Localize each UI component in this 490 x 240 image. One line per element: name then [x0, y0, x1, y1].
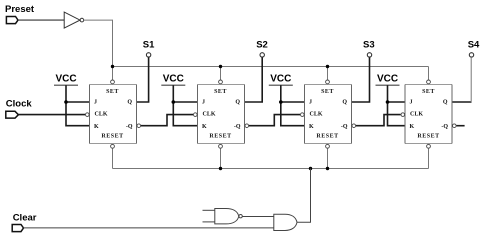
svg-text:Clear: Clear — [13, 213, 37, 224]
wire Q1 to S1 — [137, 58, 149, 103]
svg-text:-Q: -Q — [126, 124, 133, 130]
wire SET stub FF2 — [220, 67, 222, 80]
svg-text:RESET: RESET — [101, 134, 123, 140]
wire inverter output to SET bus — [84, 20, 113, 80]
wire Q4 to S4 — [452, 101, 472, 103]
wire -Q4 stub — [457, 125, 465, 127]
input port Clear — [12, 213, 37, 232]
svg-text:-Q: -Q — [441, 124, 448, 130]
svg-text:SET: SET — [214, 89, 227, 95]
svg-text:Q: Q — [127, 100, 132, 106]
wire -Q2 to CLK3 — [249, 115, 300, 126]
svg-text:CLK: CLK — [310, 112, 323, 118]
inverter U5 — [64, 12, 84, 28]
svg-text:RESET: RESET — [316, 134, 338, 140]
flip-flop U3 — [301, 80, 356, 148]
svg-text:Q: Q — [342, 100, 347, 106]
NAND gate U6 input stubs — [203, 209, 215, 211]
wire VCC4 to J4 and K4 — [388, 85, 406, 126]
wire VCC3 to J3 and K3 — [281, 85, 305, 126]
wire SET stub FF3 — [327, 67, 329, 80]
flip-flop U4 — [401, 80, 456, 148]
svg-text:RESET: RESET — [417, 134, 439, 140]
svg-text:VCC: VCC — [55, 73, 76, 84]
output port S2 — [256, 40, 268, 58]
svg-text:Q: Q — [235, 100, 240, 106]
svg-text:Preset: Preset — [5, 4, 35, 15]
junction SET bus at FF1 — [111, 65, 114, 68]
svg-text:K: K — [94, 124, 99, 130]
wire NAND output to AND input — [242, 216, 273, 218]
wire RESET stub FF4 — [428, 149, 430, 169]
input port Clock — [6, 99, 33, 119]
svg-text:SET: SET — [106, 89, 119, 95]
svg-text:VCC: VCC — [377, 73, 398, 84]
svg-text:J: J — [410, 100, 413, 106]
svg-text:SET: SET — [422, 89, 435, 95]
wire Clear to AND input — [24, 227, 274, 229]
svg-text:CLK: CLK — [95, 112, 108, 118]
input port Preset — [5, 4, 35, 23]
svg-text:RESET: RESET — [209, 134, 231, 140]
flip-flop U2 — [194, 80, 249, 148]
svg-text:Clock: Clock — [6, 99, 33, 110]
output port S3 — [363, 40, 375, 58]
svg-text:CLK: CLK — [203, 112, 216, 118]
wire VCC1 to J1 and K1 — [66, 85, 90, 126]
output port S4 — [468, 40, 480, 58]
wire AND output to RESET bus — [297, 169, 311, 223]
junction SET bus at FF2 — [219, 65, 222, 68]
junction RESET bus at FF2 — [219, 167, 222, 170]
junction SET bus at FF3 — [326, 65, 329, 68]
svg-text:S4: S4 — [468, 40, 480, 51]
wire Q2 to S2 — [245, 58, 263, 103]
wire Clock to CLK1 — [18, 114, 85, 116]
svg-text:K: K — [410, 124, 415, 130]
wire RESET bus — [113, 168, 429, 170]
wire Preset to inverter — [18, 19, 64, 21]
svg-text:J: J — [202, 100, 205, 106]
svg-text:S1: S1 — [143, 40, 155, 51]
flip-flop U1 — [86, 80, 141, 148]
svg-text:CLK: CLK — [410, 112, 423, 118]
wire RESET stub FF1 — [112, 149, 114, 169]
svg-text:-Q: -Q — [234, 124, 241, 130]
svg-text:SET: SET — [321, 89, 334, 95]
svg-text:-Q: -Q — [341, 124, 348, 130]
power VCC4 — [376, 73, 400, 85]
power VCC2 — [161, 73, 185, 85]
wire RESET stub FF2 — [220, 149, 222, 169]
wire -Q1 to CLK2 — [141, 115, 193, 126]
svg-text:Q: Q — [443, 100, 448, 106]
junction RESET bus at FF3 — [326, 167, 329, 170]
svg-text:J: J — [309, 100, 312, 106]
svg-text:S2: S2 — [256, 40, 268, 51]
output port S1 — [143, 40, 155, 58]
wire VCC2 to J2 and K2 — [173, 85, 197, 126]
svg-text:K: K — [202, 124, 207, 130]
wire SET stub FF4 — [428, 67, 430, 80]
power VCC3 — [269, 73, 293, 85]
wire RESET stub FF3 — [327, 149, 329, 169]
svg-text:S3: S3 — [363, 40, 375, 51]
wire SET bus — [113, 66, 429, 68]
svg-text:J: J — [94, 100, 97, 106]
svg-text:VCC: VCC — [270, 73, 291, 84]
svg-text:K: K — [309, 124, 314, 130]
svg-text:VCC: VCC — [163, 73, 184, 84]
power VCC1 — [54, 73, 78, 85]
NAND gate U6 — [215, 209, 243, 224]
junction RESET bus at AND output — [309, 167, 312, 170]
AND gate U7 — [274, 214, 297, 230]
wire -Q3 to CLK4 — [356, 115, 401, 126]
wire Q3 to S3 — [352, 58, 370, 103]
